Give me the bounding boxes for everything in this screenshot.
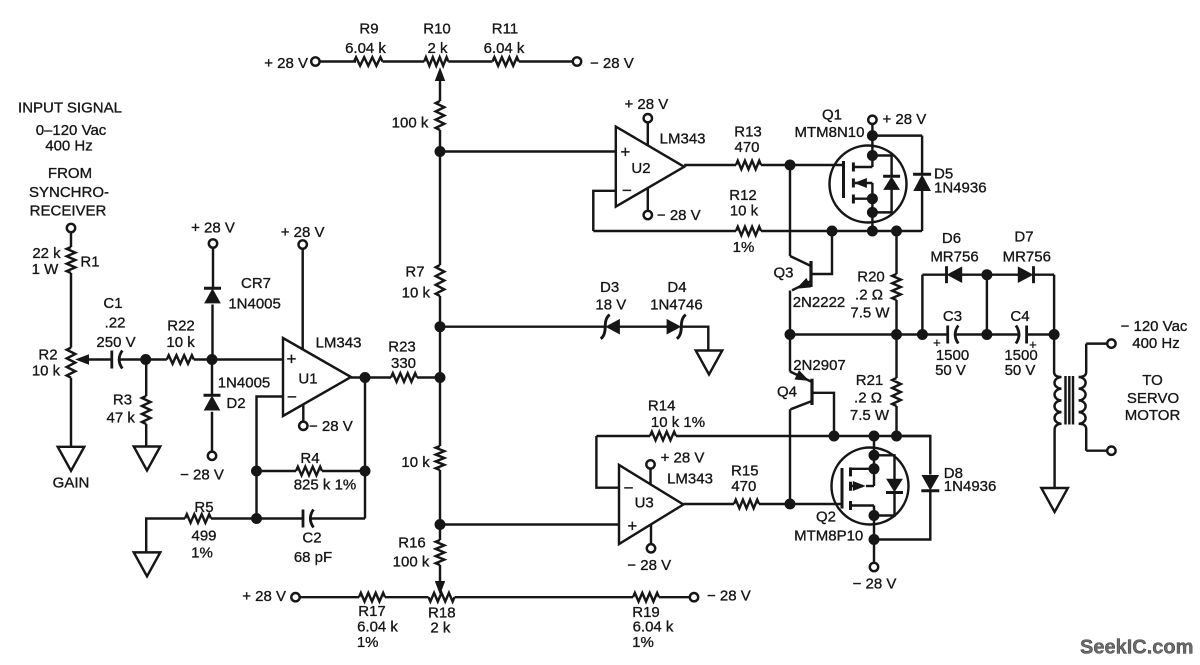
wire: output node rail	[790, 333, 1054, 335]
terminal -28V (D2)	[208, 452, 216, 460]
watermark SeekIC.com	[1080, 637, 1193, 659]
svg-text:C4: C4	[1010, 308, 1029, 325]
label -28 V (Q2)	[853, 575, 897, 592]
svg-text:10 k: 10 k	[166, 334, 195, 351]
resistor R13 470	[736, 161, 761, 170]
junction bus to D3 branch	[435, 322, 445, 332]
svg-text:LM343: LM343	[660, 131, 706, 148]
svg-text:R9: R9	[359, 20, 378, 37]
svg-text:1%: 1%	[191, 544, 213, 561]
wire: U3 +28V pin	[649, 468, 651, 484]
resistor R14 10k 1%	[650, 432, 676, 441]
svg-text:10 k: 10 k	[401, 454, 430, 471]
wire: secondary top lead	[1086, 342, 1107, 344]
wire: D4 to ground corner	[681, 327, 708, 351]
svg-text:825 k 1%: 825 k 1%	[294, 476, 357, 493]
svg-text:400 Hz: 400 Hz	[45, 138, 93, 155]
label R4 825 k 1%	[294, 450, 357, 493]
svg-text:R20: R20	[857, 268, 885, 285]
wire: Q1 gate bar and channel	[844, 161, 854, 204]
wire: U2 output to R13	[684, 164, 736, 166]
svg-text:+ 28 V: + 28 V	[281, 224, 325, 241]
diode D6 MR756	[947, 266, 962, 283]
svg-text:U2: U2	[631, 160, 650, 177]
svg-text:100 k: 100 k	[393, 553, 430, 570]
wire: bus to D3	[440, 325, 605, 327]
resistor R9 6.04k	[354, 57, 383, 66]
svg-text:470: 470	[734, 139, 759, 156]
resistor R22 10k	[167, 355, 194, 364]
svg-text:330: 330	[391, 355, 416, 372]
junction source to body diode	[867, 207, 877, 217]
wire: Q2 top lead from rail	[851, 436, 875, 469]
wire: secondary bottom lead	[1086, 449, 1107, 451]
wire: U2 -28V pin	[647, 188, 649, 211]
label +28 V (U2)	[625, 96, 669, 113]
junction Q3 collector on source rail	[827, 226, 837, 236]
label R22 10 k	[166, 317, 195, 351]
wire: Q3 collector to rail	[811, 231, 832, 274]
junction transformer primary	[1049, 330, 1059, 340]
svg-text:.2 Ω: .2 Ω	[854, 389, 882, 406]
svg-text:+: +	[620, 142, 630, 161]
svg-text:C3: C3	[943, 308, 962, 325]
wire: R15 to Q2 gate	[759, 503, 842, 505]
resistor R15 470	[734, 500, 759, 509]
wire: D6/D7 top line	[922, 273, 1054, 275]
svg-text:1%: 1%	[357, 634, 379, 651]
svg-text:C2: C2	[302, 529, 321, 546]
label C2 68 pF	[294, 529, 332, 566]
wire: R13 to Q1 gate	[761, 164, 844, 166]
wire: U1 -28V pin	[302, 404, 304, 422]
svg-text:R16: R16	[398, 534, 426, 551]
svg-text:100 k: 100 k	[392, 115, 429, 132]
wire: bus 100k to R7	[439, 130, 441, 265]
svg-text:Q1: Q1	[822, 106, 842, 123]
ground (GAIN)	[58, 447, 85, 471]
wire: D5 vertical	[921, 136, 923, 231]
wire: Q2 body arrow (p-channel)	[851, 469, 875, 490]
resistor R18 2k potentiometer	[429, 593, 455, 602]
svg-text:6.04 k: 6.04 k	[357, 619, 398, 636]
svg-text:+ 28 V: + 28 V	[191, 219, 235, 236]
wire: R3 branch down	[145, 360, 147, 397]
wire: bus to U2 + input	[440, 150, 616, 152]
label R5 499 1%	[191, 499, 216, 562]
resistor R16 100k	[436, 540, 445, 565]
label D4 1N4746	[650, 279, 703, 314]
svg-text:R10: R10	[423, 20, 451, 37]
wire: U3 - input feedback up	[596, 436, 619, 488]
terminal -28V (Q2)	[870, 563, 878, 571]
wire: bus R16 to R18 wiper	[439, 565, 441, 584]
junction Q2 body-source	[869, 464, 879, 474]
resistor R2 10k potentiometer	[67, 348, 76, 378]
label R19 6.04 k 1%	[632, 604, 674, 651]
label -28 V (U2)	[657, 207, 701, 224]
wire: D6 branch vertical left	[921, 275, 923, 335]
svg-text:2N2222: 2N2222	[793, 294, 846, 311]
resistor R3 47k	[142, 396, 151, 424]
label R16 100 k	[393, 534, 430, 570]
wire: Q1 drain lead	[853, 124, 872, 167]
terminal -28V (U1)	[299, 422, 307, 430]
wire: R14 feedback line left	[596, 435, 650, 437]
junction bus to R23	[435, 373, 445, 383]
terminal +28V (U2)	[644, 114, 652, 122]
label +28 V (bottom left)	[242, 588, 286, 605]
resistor R1 22k 1W	[67, 247, 76, 273]
wire: node to U1 + input	[212, 358, 283, 360]
op-amp U1 LM343	[283, 338, 351, 416]
label -120 Vac 400 Hz	[1121, 318, 1188, 352]
svg-text:− 28 V: − 28 V	[657, 207, 701, 224]
svg-text:2N2907: 2N2907	[793, 357, 846, 374]
svg-text:+ 28 V: + 28 V	[264, 55, 308, 72]
svg-text:MR756: MR756	[1003, 249, 1051, 266]
node CR7/D2 clamp	[207, 355, 217, 365]
terminal +28V (U3)	[646, 460, 654, 468]
label 100 k	[392, 115, 429, 132]
diode D7 MR756	[1018, 266, 1033, 283]
label CR7 1N4005	[228, 275, 281, 313]
terminal +28V bottom left	[291, 593, 299, 601]
label R18 2 k	[428, 604, 456, 636]
wire: Q2 bottom stub	[851, 506, 875, 564]
terminal input signal	[67, 224, 75, 232]
terminal output top	[1107, 339, 1115, 347]
wire: bus R7 to 10k	[439, 296, 441, 446]
svg-text:2 k: 2 k	[430, 619, 451, 636]
svg-text:C1: C1	[103, 295, 122, 312]
capacitor C3 1500 50V	[948, 326, 959, 344]
svg-text:− 120 Vac: − 120 Vac	[1121, 318, 1188, 335]
label C1 .22 250 V	[96, 295, 135, 351]
svg-text:6.04 k: 6.04 k	[633, 619, 674, 636]
label D2 1N4005	[218, 374, 271, 412]
resistor R10 2k potentiometer	[424, 57, 448, 66]
wire: R3 to ground	[145, 424, 147, 447]
wire: R4 left segment	[257, 470, 297, 472]
wire: top rail R9-R10	[383, 60, 425, 62]
wire: Q1 source rail	[761, 230, 922, 232]
svg-text:1N4936: 1N4936	[944, 478, 997, 495]
wire: C2 line left segment	[257, 517, 303, 519]
svg-text:TO: TO	[1142, 372, 1163, 389]
label C4 1500 50 V	[1004, 308, 1037, 379]
svg-text:10 k: 10 k	[32, 362, 61, 379]
wire: U1 +28V pin	[301, 248, 303, 350]
wire: top rail R10-R11	[448, 60, 492, 62]
wire: junction to R22	[146, 358, 167, 360]
label LM343 (U3)	[667, 470, 713, 487]
junction U1 output	[360, 373, 370, 383]
terminal +28V top left	[311, 57, 319, 65]
zener diode D4 1N4746	[667, 315, 686, 339]
label D3 18 V	[595, 279, 626, 314]
wire: R5 from ground corner	[146, 519, 185, 553]
label R14 10 k 1%	[648, 398, 705, 431]
wire: bottom rail R17-R18	[385, 596, 429, 598]
svg-text:− 28 V: − 28 V	[627, 557, 671, 574]
svg-text:D7: D7	[1014, 229, 1033, 246]
svg-text:R1: R1	[80, 253, 99, 270]
wire: Q1 source lead to rail	[871, 199, 873, 231]
wire: R5 to junction	[211, 517, 257, 519]
label -28 V (D2)	[180, 466, 224, 483]
svg-text:47 k: 47 k	[107, 409, 136, 426]
junction D6/D7	[982, 270, 992, 280]
svg-text:R5: R5	[194, 499, 213, 516]
junction R20/R21	[892, 330, 902, 340]
svg-text:D3: D3	[600, 279, 619, 296]
terminal -28V (U3)	[647, 544, 655, 552]
svg-text:1N4005: 1N4005	[228, 295, 281, 312]
svg-text:−: −	[287, 388, 297, 407]
resistor 10k (mid bus)	[436, 446, 445, 470]
svg-text:68 pF: 68 pF	[294, 549, 332, 566]
wire: Q1 drain branch to D5	[872, 134, 922, 136]
terminal +28V (CR7)	[209, 239, 217, 247]
diode D8 1N4936	[921, 476, 939, 491]
svg-text:MTM8P10: MTM8P10	[794, 528, 863, 545]
transistor Q2 MTM8P10 p-channel MOSFET	[832, 448, 909, 525]
svg-text:R3: R3	[113, 391, 132, 408]
junction Q1 source on rail	[867, 226, 877, 236]
transistor Q3 2N2222 NPN	[809, 261, 812, 287]
svg-text:R7: R7	[405, 263, 424, 280]
diode CR7 1N4005	[204, 288, 221, 303]
junction C3/C4	[982, 330, 992, 340]
svg-text:− 28 V: − 28 V	[309, 418, 353, 435]
svg-text:7.5 W: 7.5 W	[850, 407, 890, 424]
svg-text:499: 499	[191, 527, 216, 544]
transformer T1 core	[1066, 376, 1074, 425]
svg-text:SYNCHRO-: SYNCHRO-	[29, 184, 109, 201]
svg-text:FROM: FROM	[48, 165, 92, 182]
svg-text:1N4936: 1N4936	[934, 180, 987, 197]
svg-text:−: −	[622, 181, 632, 200]
label GAIN	[53, 474, 90, 491]
wire: R20 bottom	[895, 300, 897, 335]
svg-text:R17: R17	[358, 603, 386, 620]
diode D5 1N4936	[913, 174, 931, 190]
svg-text:250 V: 250 V	[96, 334, 135, 351]
label R12 10 k 1%	[729, 187, 758, 256]
svg-text:.22: .22	[105, 314, 126, 331]
wire: Q2 source rail	[676, 435, 930, 437]
svg-text:R21: R21	[856, 372, 884, 389]
label D8 1N4936	[944, 465, 997, 495]
label Q2 MTM8P10	[794, 509, 863, 545]
wire: Q3 emitter to output rail	[790, 279, 811, 335]
svg-text:SeekIC.com: SeekIC.com	[1080, 637, 1193, 659]
wire: bottom rail R18-R19	[455, 596, 634, 598]
junction R21 bottom on rail	[892, 431, 902, 441]
svg-text:−: −	[624, 479, 634, 498]
resistor R20 .2 ohm 7.5W	[892, 274, 901, 300]
svg-text:R15: R15	[731, 462, 759, 479]
transformer T1 secondary winding	[1079, 344, 1087, 451]
label Q1 MTM8N10	[794, 106, 864, 141]
junction D6 branch	[917, 330, 927, 340]
svg-text:50 V: 50 V	[935, 362, 966, 379]
resistor 100k (upper bus)	[436, 101, 445, 130]
terminal -28V top right	[573, 57, 581, 65]
svg-text:GAIN: GAIN	[53, 474, 90, 491]
wire: R22 to node	[194, 358, 212, 360]
label C3 1500 50 V	[933, 308, 969, 379]
svg-text:R4: R4	[300, 450, 319, 467]
junction to Q2 body diode	[869, 450, 879, 460]
label -28 V (bottom right)	[707, 587, 751, 604]
junction C2/R5	[252, 514, 262, 524]
wire: rail corner to D8	[897, 436, 931, 475]
label R23 330	[388, 338, 416, 372]
junction R4 right	[360, 466, 370, 476]
diode D2 1N4005	[204, 395, 221, 410]
wiper arrow of R2 and wire to C1	[77, 355, 112, 364]
label -28 V (top right)	[590, 55, 634, 72]
svg-text:18 V: 18 V	[595, 297, 626, 314]
wire: Q1 body diode branch	[872, 156, 891, 213]
junction bus to U2 input	[435, 147, 445, 157]
svg-text:6.04 k: 6.04 k	[345, 40, 386, 57]
wire: top rail right segment	[519, 60, 573, 62]
svg-text:10 k 1%: 10 k 1%	[651, 414, 705, 431]
wire: input terminal to R1	[70, 232, 72, 247]
label R13 470	[734, 124, 762, 156]
resistor R17 6.04k 1%	[359, 593, 385, 602]
wire: bottom rail left	[299, 596, 359, 598]
label INPUT SIGNAL 0-120 Vac 400 Hz	[18, 99, 122, 154]
svg-text:LM343: LM343	[316, 334, 362, 351]
resistor R21 .2 ohm 7.5W	[892, 378, 901, 406]
label R10 2 k	[423, 20, 451, 57]
node Q2 gate / Q4 base	[785, 499, 795, 509]
label R21 .2ohm 7.5W	[850, 372, 890, 424]
svg-text:22 k: 22 k	[32, 245, 61, 262]
resistor R11 6.04k	[493, 57, 519, 66]
capacitor C1 .22 250V	[112, 351, 146, 369]
wiper arrow of R10 to 100k	[436, 69, 445, 102]
svg-text:1N4005: 1N4005	[218, 374, 271, 391]
label +28 V (U1)	[281, 224, 325, 241]
svg-text:SERVO: SERVO	[1127, 390, 1179, 407]
label +28 V (Q1)	[883, 111, 927, 128]
svg-text:+ 28 V: + 28 V	[625, 96, 669, 113]
wire: output rail to Q4 emitter	[790, 335, 812, 383]
label D5 1N4936	[934, 166, 987, 197]
junction R4 left	[252, 466, 262, 476]
wire: gate node down to Q3 base	[790, 165, 811, 266]
zener diode D3 18V	[601, 315, 620, 339]
resistor R12 10k 1%	[736, 227, 761, 236]
terminal output bottom	[1107, 447, 1115, 455]
resistor R5 499	[185, 514, 211, 523]
svg-text:MTM8N10: MTM8N10	[794, 124, 864, 141]
junction bus to U3 input	[435, 520, 445, 530]
junction body-source	[867, 194, 877, 204]
ground (R5)	[134, 552, 161, 576]
junction drain to body diode	[867, 151, 877, 161]
label R1 22 k 1 W	[32, 245, 100, 278]
svg-text:D6: D6	[942, 230, 961, 247]
wire: U1 - input feedback down	[257, 397, 284, 519]
svg-text:U3: U3	[635, 495, 654, 512]
junction Q2 to D8 return	[869, 535, 879, 545]
wire: U2 - input feedback	[593, 191, 616, 231]
svg-text:+ 28 V: + 28 V	[883, 111, 927, 128]
label TO SERVO MOTOR	[1125, 372, 1181, 424]
svg-text:− 28 V: − 28 V	[180, 466, 224, 483]
svg-text:.2 Ω: .2 Ω	[855, 286, 883, 303]
svg-text:+ 28 V: + 28 V	[661, 450, 705, 467]
wire: R12 feedback line (Q1 source rail)	[593, 230, 736, 232]
label R7 10 k	[402, 263, 431, 301]
label Q3	[773, 265, 793, 282]
node Q1 gate / Q3 base	[785, 160, 795, 170]
label 2N2222	[793, 294, 846, 311]
wire: Q2 body diode branch	[874, 455, 895, 515]
svg-text:Q2: Q2	[816, 509, 836, 526]
svg-text:Q4: Q4	[777, 384, 797, 401]
svg-text:D2: D2	[226, 395, 245, 412]
junction Q3/Q4 emitters on output rail	[785, 330, 795, 340]
label R20 .2ohm 7.5W	[850, 268, 890, 321]
terminal -28V bottom right	[690, 593, 698, 601]
wire: +28V to CR7	[212, 247, 214, 287]
svg-text:10 k: 10 k	[402, 284, 431, 301]
wire: D3 to D4	[619, 325, 668, 327]
svg-text:+: +	[287, 350, 297, 369]
label R3 47 k	[107, 391, 136, 426]
svg-text:U1: U1	[298, 370, 317, 387]
label R2 10 k	[32, 346, 61, 379]
body diode of Q1	[883, 176, 900, 189]
svg-text:Q3: Q3	[773, 265, 793, 282]
wire: D8 bottom return	[874, 491, 930, 540]
terminal -28V (U2)	[644, 211, 652, 219]
label -28 V (U1)	[309, 418, 353, 435]
wire: R23 to bus	[417, 376, 440, 378]
capacitor C4 1500 50V	[1016, 326, 1027, 344]
op-amp U3 LM343	[619, 465, 683, 544]
label D6 MR756	[930, 230, 978, 266]
junction C1/R3/R22	[141, 355, 151, 365]
junction Q2 on rail	[869, 431, 879, 441]
svg-text:2 k: 2 k	[427, 40, 448, 57]
transistor Q4 2N2907 PNP	[810, 379, 813, 405]
svg-text:7.5 W: 7.5 W	[850, 304, 890, 321]
label R15 470	[731, 462, 759, 495]
svg-text:LM343: LM343	[667, 470, 713, 487]
wire: Q4 collector to lower rail	[812, 393, 834, 436]
label -28 V (U3)	[627, 557, 671, 574]
ground (D4)	[696, 351, 723, 375]
svg-text:50 V: 50 V	[1005, 362, 1036, 379]
wire: bus 10k to R16	[439, 470, 441, 540]
wire: D2 to -28V terminal	[211, 412, 213, 452]
svg-text:1%: 1%	[632, 634, 654, 651]
svg-text:R22: R22	[167, 317, 195, 334]
label LM343 (U2)	[660, 131, 706, 148]
ground (transformer)	[1041, 488, 1068, 512]
terminal +28V (U1)	[299, 240, 307, 248]
wire: R20 top	[895, 231, 897, 274]
svg-text:10 k: 10 k	[730, 203, 759, 220]
